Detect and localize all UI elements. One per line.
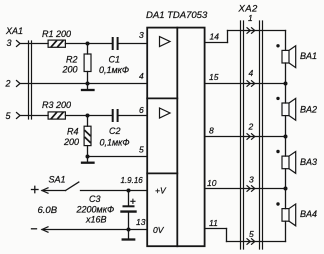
capacitor C3: [122, 191, 136, 230]
svg-text:1.9.16: 1.9.16: [121, 176, 144, 185]
svg-text:х16В: х16В: [85, 215, 107, 225]
connector XA1: [29, 41, 32, 119]
wire C1 to DA1 pin 3: [119, 43, 148, 45]
svg-text:+V: +V: [155, 186, 167, 196]
svg-text:DA1 TDA7053: DA1 TDA7053: [146, 10, 208, 21]
svg-text:R4: R4: [67, 127, 79, 137]
speaker BA3: [282, 152, 296, 174]
svg-text:13: 13: [136, 217, 146, 227]
svg-text:10: 10: [207, 178, 217, 188]
ground under R4: [82, 157, 94, 163]
wire R3 to C2: [65, 115, 111, 117]
svg-text:5: 5: [6, 111, 12, 121]
node junction C3 minus: [127, 228, 131, 232]
node junction R3/R4: [86, 114, 90, 118]
battery minus terminal arrow: [42, 227, 48, 232]
svg-text:6.0В: 6.0В: [38, 205, 58, 216]
svg-text:15: 15: [209, 72, 219, 82]
svg-text:3: 3: [7, 38, 12, 48]
svg-text:1: 1: [248, 13, 253, 23]
wire DA1 pin 14: [205, 31, 228, 43]
resistor R4: [84, 126, 91, 145]
node junction C3 plus: [127, 189, 131, 193]
resistor R3: [48, 112, 65, 119]
wire R1 to C1: [65, 43, 111, 45]
wire speaker rail top to BA1: [285, 31, 287, 51]
BA3 phase dot: [276, 150, 279, 153]
capacitor C2: [113, 110, 118, 121]
wire R4 top stub: [87, 116, 89, 127]
XA1 pin 5 chevron: [17, 113, 21, 119]
svg-text:0,1мкФ: 0,1мкФ: [100, 138, 130, 148]
node junction R1/R2: [86, 42, 90, 46]
svg-text:200: 200: [62, 65, 78, 75]
resistor R1: [48, 40, 65, 47]
svg-text:11: 11: [209, 218, 218, 228]
XA1 pin 2 chevron: [17, 81, 21, 87]
wire DA1 pin 8 to XA2.2: [205, 136, 286, 138]
svg-text:0,1мкФ: 0,1мкФ: [99, 65, 129, 75]
svg-text:3: 3: [139, 30, 144, 40]
wire BA3 to row XA2.3: [285, 169, 287, 189]
BA2 phase dot: [276, 97, 279, 100]
wire BA4 to row XA2.5: [285, 221, 287, 241]
connector XA2: [241, 21, 263, 249]
node junction rail row3: [284, 187, 288, 191]
svg-text:8: 8: [209, 126, 214, 136]
wire XA1.2 to DA1 pin 4: [20, 83, 147, 85]
op-amp A2 triangle: [160, 108, 171, 118]
svg-text:3: 3: [249, 175, 254, 185]
svg-text:5: 5: [139, 145, 144, 155]
XA2 pin 3 chevrons: [247, 186, 255, 192]
node junction rail row4: [284, 82, 288, 86]
wire row XA2.1: [228, 30, 286, 32]
node junction R4 bottom: [86, 155, 90, 159]
svg-text:6: 6: [139, 105, 144, 115]
svg-text:5: 5: [249, 229, 254, 239]
wire XA1.3 to R1: [20, 43, 48, 45]
svg-text:0V: 0V: [153, 225, 165, 235]
XA2 pin 2 chevrons: [247, 134, 255, 140]
svg-text:4: 4: [139, 71, 144, 81]
wire DA1 pin 11: [205, 229, 286, 242]
svg-text:2: 2: [248, 122, 254, 132]
wire DA1 pin 15 to XA2.4: [205, 83, 286, 85]
svg-text:SA1: SA1: [49, 175, 66, 185]
op-amp A1 triangle: [160, 37, 171, 47]
wire minus row to DA1 pin 13: [42, 229, 147, 231]
svg-text:XA1: XA1: [5, 26, 23, 36]
svg-text:14: 14: [210, 32, 220, 42]
wire plus to switch: [42, 190, 66, 192]
wire rail to BA4: [285, 189, 287, 209]
wire R2 top stub: [87, 44, 89, 55]
svg-text:4: 4: [249, 68, 254, 78]
wire XA1.5 to R3: [20, 115, 48, 117]
wire R4 junction to DA1 pin 5: [88, 156, 148, 158]
XA1 pin 3 chevron: [17, 41, 21, 47]
BA4 phase dot: [276, 202, 279, 205]
wire R4 bottom stub: [87, 146, 89, 157]
op-amp IC DA1 TDA7053 outline: [147, 28, 204, 247]
svg-text:BA2: BA2: [300, 104, 317, 114]
wire BA1 to row XA2.4: [285, 63, 287, 84]
svg-text:R3 200: R3 200: [42, 100, 71, 110]
svg-text:BA3: BA3: [300, 157, 317, 167]
switch SA1: [66, 182, 79, 191]
XA2 pin 1 chevrons: [247, 28, 255, 34]
svg-text:C1: C1: [109, 55, 121, 65]
XA2 pin 5 chevrons: [247, 239, 255, 245]
battery plus sign: [32, 186, 39, 192]
svg-text:C3: C3: [89, 194, 101, 204]
wire BA2 to row XA2.2: [285, 116, 287, 137]
svg-text:BA1: BA1: [300, 51, 317, 61]
node junction rail row2: [284, 135, 288, 139]
wire DA1 pin 10 to XA2.3: [205, 188, 286, 190]
XA2 pin 4 chevrons: [247, 81, 255, 87]
svg-text:R1 200: R1 200: [42, 29, 71, 39]
C3 polarity plus: [131, 199, 135, 203]
capacitor C1: [113, 38, 118, 49]
node junction R2/row2: [86, 82, 90, 86]
wire C2 to DA1 pin 6: [119, 115, 148, 117]
ground under C3: [123, 230, 135, 240]
svg-text:C2: C2: [109, 126, 121, 136]
BA1 phase dot: [276, 44, 279, 47]
resistor R2: [84, 54, 91, 72]
speaker BA2: [282, 98, 296, 120]
ground under R2: [82, 84, 94, 91]
wire R2 bottom stub: [87, 72, 89, 84]
svg-text:BA4: BA4: [300, 209, 317, 219]
svg-text:2: 2: [5, 79, 11, 89]
svg-text:R2: R2: [66, 55, 78, 65]
speaker BA4: [282, 204, 296, 226]
wire rail to BA2: [285, 84, 287, 104]
wire rail to BA3: [285, 137, 287, 157]
speaker BA1: [282, 46, 296, 68]
wire switch to C3 top junction: [81, 190, 148, 192]
battery plus terminal arrow: [42, 188, 48, 193]
svg-text:2200мкФ: 2200мкФ: [76, 205, 115, 215]
battery minus sign: [32, 228, 37, 230]
svg-text:200: 200: [63, 137, 79, 147]
